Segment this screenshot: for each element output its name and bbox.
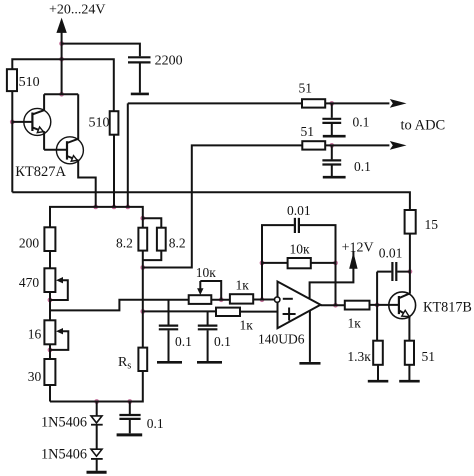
svg-text:1к: 1к bbox=[236, 277, 250, 292]
svg-text:15: 15 bbox=[425, 217, 439, 232]
svg-text:51: 51 bbox=[299, 81, 313, 96]
svg-text:30: 30 bbox=[28, 369, 42, 384]
svg-text:0.1: 0.1 bbox=[147, 416, 164, 431]
svg-text:51: 51 bbox=[422, 349, 436, 364]
svg-text:0.1: 0.1 bbox=[175, 334, 192, 349]
svg-text:1к: 1к bbox=[240, 317, 254, 332]
svg-text:0.01: 0.01 bbox=[287, 203, 311, 218]
svg-text:10к: 10к bbox=[196, 265, 217, 280]
svg-text:+20...24V: +20...24V bbox=[49, 3, 106, 18]
svg-text:to ADC: to ADC bbox=[401, 118, 446, 134]
svg-text:+12V: +12V bbox=[342, 241, 374, 256]
svg-text:1N5406: 1N5406 bbox=[41, 446, 87, 462]
svg-text:КТ817В: КТ817В bbox=[423, 300, 472, 316]
svg-text:140UD6: 140UD6 bbox=[258, 332, 305, 347]
svg-text:1N5406: 1N5406 bbox=[41, 415, 87, 431]
svg-text:0.1: 0.1 bbox=[354, 159, 371, 174]
svg-text:51: 51 bbox=[301, 124, 315, 139]
svg-text:0.1: 0.1 bbox=[353, 115, 370, 130]
svg-text:0.1: 0.1 bbox=[214, 334, 231, 349]
svg-text:1к: 1к bbox=[348, 316, 362, 331]
svg-text:200: 200 bbox=[19, 235, 40, 250]
svg-text:510: 510 bbox=[19, 75, 40, 90]
svg-text:2200: 2200 bbox=[155, 54, 183, 69]
svg-text:16: 16 bbox=[28, 327, 42, 342]
svg-text:КТ827А: КТ827А bbox=[15, 164, 66, 180]
svg-text:8.2: 8.2 bbox=[116, 235, 133, 250]
svg-text:1.3к: 1.3к bbox=[347, 349, 371, 364]
svg-text:10к: 10к bbox=[290, 241, 311, 256]
svg-text:510: 510 bbox=[89, 116, 110, 131]
svg-text:470: 470 bbox=[19, 275, 40, 290]
svg-text:8.2: 8.2 bbox=[169, 235, 186, 250]
svg-text:0.01: 0.01 bbox=[379, 245, 403, 260]
